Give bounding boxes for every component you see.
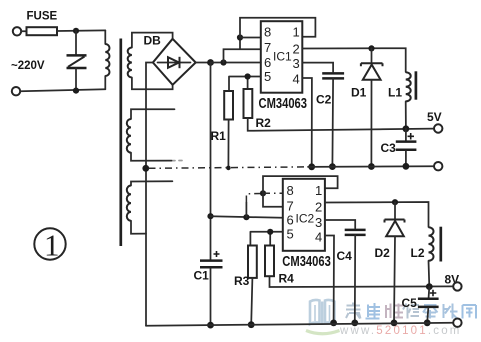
svg-text:D2: D2 <box>375 246 391 260</box>
wire AC-N <box>20 89 105 91</box>
svg-text:L1: L1 <box>388 86 402 100</box>
svg-text:8V: 8V <box>445 273 460 287</box>
node IC2 Vcc tap <box>207 213 213 219</box>
svg-text:C5: C5 <box>402 296 418 310</box>
svg-text:R3: R3 <box>234 274 250 288</box>
wire IC1 pin6 Vcc line <box>211 62 261 64</box>
node DC+ junction <box>207 59 214 66</box>
svg-text:1: 1 <box>315 183 322 198</box>
wire IC1 pin7 link <box>224 38 261 63</box>
ground rail bottom <box>146 323 453 326</box>
terminal 8V-gnd <box>453 319 461 327</box>
svg-text:L2: L2 <box>411 246 425 260</box>
svg-text:R1: R1 <box>211 129 227 143</box>
svg-text:IC2: IC2 <box>296 212 315 226</box>
node D1 junction <box>368 45 374 51</box>
svg-text:C2: C2 <box>316 93 332 107</box>
inductor L2 <box>429 227 441 287</box>
node L2-C5 output junction <box>426 283 433 290</box>
node R3 ground <box>248 321 255 328</box>
wire fuse to primary <box>57 29 105 32</box>
node IC1 pin8 junction <box>237 34 243 40</box>
ground rail channel 1 (dash-dot + solid) <box>149 167 309 168</box>
node D2 junction <box>392 199 398 205</box>
varistor Z <box>67 31 87 91</box>
wire IC1 pin8-pin1 top loop <box>240 18 315 38</box>
transformer T1 primary winding <box>105 30 109 89</box>
node pin7 link junction <box>220 59 226 65</box>
wire IC2 pin4 to ground rail <box>325 236 334 323</box>
svg-text:CM34063: CM34063 <box>259 96 308 112</box>
resistor R4 <box>265 246 274 277</box>
capacitor C5 <box>418 287 439 323</box>
transformer T1 secondary winding S3 <box>127 181 173 233</box>
svg-text:5: 5 <box>264 69 271 84</box>
svg-text:D1: D1 <box>351 86 367 100</box>
svg-text:2: 2 <box>315 200 322 215</box>
wire IC2 pin8 stub (dash-dot) <box>263 192 283 194</box>
op-amp U2 IC2 box <box>283 179 325 251</box>
bridge rectifier DB <box>153 39 196 85</box>
wire IC1 pin5 line <box>229 77 261 92</box>
capacitor C1 <box>200 251 223 325</box>
op-amp U1 IC1 box <box>261 21 303 93</box>
node R1 ground <box>226 166 231 171</box>
node J1 <box>73 28 79 34</box>
node C1 ground <box>207 322 214 329</box>
svg-text:2: 2 <box>293 42 300 57</box>
capacitor C3 <box>396 129 417 167</box>
wire IC2 pin2 to L2 <box>325 202 429 227</box>
svg-text:1: 1 <box>293 25 300 40</box>
wire R3 to ground rail <box>251 278 252 325</box>
svg-text:C3: C3 <box>381 141 397 155</box>
terminal AC-N <box>12 87 20 95</box>
transformer T1 secondary winding S1 <box>128 33 173 90</box>
node bridge ground junction <box>142 165 149 172</box>
node pin4 ground <box>308 163 315 170</box>
diode D1 <box>361 48 383 166</box>
wire AC-L to fuse <box>21 30 26 32</box>
wire IC2 pin3 to C4 <box>325 220 355 228</box>
node C5 ground <box>424 319 431 326</box>
svg-text:8: 8 <box>264 25 271 40</box>
svg-text:www.520101.com: www.520101.com <box>339 325 462 337</box>
svg-text:~220V: ~220V <box>11 60 45 72</box>
node C3 ground <box>403 163 410 170</box>
terminal 5V-gnd <box>434 162 442 170</box>
wire IC2 pin7 link <box>263 193 283 207</box>
svg-text:6: 6 <box>287 213 294 228</box>
wire IC2 pin6 Vcc line <box>211 216 283 218</box>
svg-text:5: 5 <box>287 227 294 242</box>
capacitor C4 <box>345 230 366 323</box>
wire R4 to 8V feedback line <box>270 276 453 287</box>
node pin5-R2 junction <box>245 73 251 79</box>
svg-text:IC1: IC1 <box>273 50 292 64</box>
svg-text:5V: 5V <box>427 110 442 124</box>
svg-text:4: 4 <box>293 72 300 87</box>
inductor L1 <box>406 71 416 129</box>
marker circled 1 <box>34 228 65 263</box>
wire bridge left vertex to ground rail <box>146 63 153 326</box>
wire bridge output to IC1 Vcc node <box>196 62 211 64</box>
svg-text:7: 7 <box>264 40 271 55</box>
terminal 5V+ <box>434 124 442 132</box>
resistor R1 <box>224 91 233 120</box>
svg-text:C4: C4 <box>337 249 353 263</box>
node C4 ground <box>351 320 358 327</box>
wire IC2 pin8-pin1 top loop <box>263 176 338 193</box>
diode D2 <box>385 202 405 323</box>
node IC2 pin8 junction <box>260 190 266 196</box>
terminal 8V+ <box>453 282 461 290</box>
transformer T1 secondary winding S2 <box>127 109 182 161</box>
svg-text:C1: C1 <box>194 269 210 283</box>
resistor R3 <box>248 246 257 278</box>
fuse F1 <box>27 27 58 35</box>
wire IC2 pin5 line <box>250 232 282 246</box>
wire R2 to 5V feedback line <box>248 118 434 131</box>
watermark group (decorative, drawn under circuit) <box>306 300 476 337</box>
wire R1 to ground rail <box>227 120 229 168</box>
svg-text:R2: R2 <box>256 116 272 130</box>
transformer T1 core <box>119 39 122 247</box>
svg-text:3: 3 <box>293 56 300 71</box>
capacitor C2 <box>322 73 344 166</box>
svg-text:1: 1 <box>44 228 60 263</box>
terminal AC-L <box>13 27 21 35</box>
wire IC1 pin2 to L1 <box>302 48 405 72</box>
svg-text:4: 4 <box>315 230 322 245</box>
svg-text:FUSE: FUSE <box>27 11 58 23</box>
svg-text:R4: R4 <box>279 272 295 286</box>
node L1-C3 output junction <box>403 125 410 132</box>
svg-text:8: 8 <box>287 183 294 198</box>
wire IC1 pin3 to C2 <box>302 63 333 72</box>
node J2 <box>73 88 79 94</box>
svg-text:CM34063: CM34063 <box>282 254 331 270</box>
svg-text:DB: DB <box>144 34 162 48</box>
node pin4 ground <box>330 320 337 327</box>
node pin5-R4 junction <box>267 229 273 235</box>
wire DC+ rail down to C1 <box>210 63 212 260</box>
svg-text:6: 6 <box>264 55 271 70</box>
wire IC1 pin8 stub <box>240 37 261 39</box>
node D1 ground <box>368 163 375 170</box>
svg-text:3: 3 <box>315 215 322 230</box>
wire IC1 pin4 to ground rail <box>302 78 312 167</box>
svg-text:7: 7 <box>287 199 294 214</box>
node IC2 pin8 link ground <box>243 214 249 220</box>
node D2 ground <box>391 320 398 327</box>
wire IC2 pin8 link (dash-dot) <box>246 194 263 218</box>
resistor R2 <box>244 89 253 118</box>
node C2 ground <box>329 163 336 170</box>
